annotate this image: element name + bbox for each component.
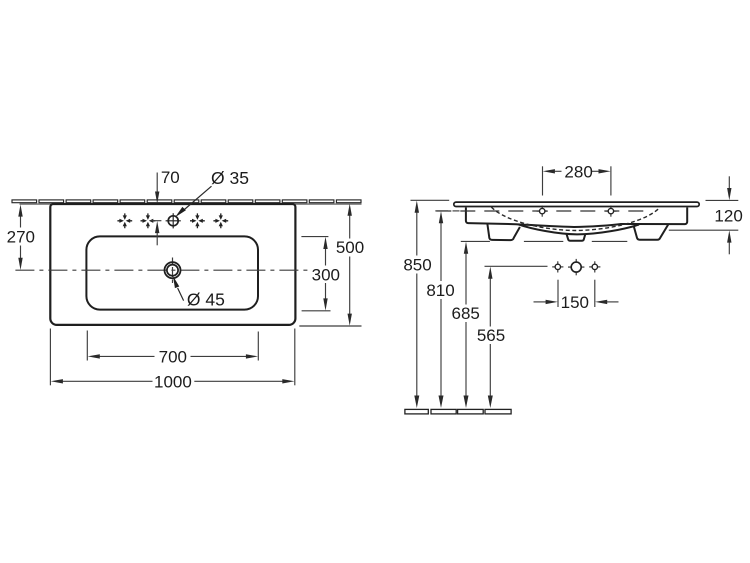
svg-text:300: 300: [312, 265, 340, 284]
trap drain circle (front): [568, 259, 584, 275]
drain outer circle: [165, 262, 181, 278]
optional tap hole cross 2: [141, 213, 156, 228]
svg-text:280: 280: [564, 162, 592, 181]
trap hole cross left (front): [552, 261, 563, 272]
tap hole Ø35 (plan): [166, 213, 181, 228]
fixing hole left (front): [537, 206, 548, 217]
horizontal centre line through drain: [15, 269, 310, 271]
dimension 280 (hole spacing): [543, 166, 611, 195]
dimension 70 (tap hole offset): [150, 173, 161, 246]
dimension 270 (left): [20, 216, 22, 259]
leader Ø35: [182, 186, 212, 212]
floor tile 4: [485, 409, 511, 414]
svg-text:70: 70: [161, 168, 180, 187]
dimension 700 (inner basin width): [87, 331, 258, 361]
svg-text:565: 565: [477, 326, 505, 345]
svg-text:500: 500: [336, 238, 364, 257]
dimension 300 (inner basin depth): [301, 237, 330, 311]
dimension 1000 (outer width): [50, 329, 294, 386]
centre drain tab (front view): [567, 234, 586, 241]
drain inner circle: [167, 265, 178, 276]
floor tile 1: [405, 409, 428, 414]
floor tile 2: [431, 409, 456, 414]
dimension 850 (top height): [411, 200, 450, 396]
optional tap hole cross 1: [117, 213, 132, 228]
bowl underside bulge (front view): [518, 224, 639, 234]
trap hole cross right (front): [589, 261, 600, 272]
dimension 500 (right of plan): [299, 215, 361, 326]
svg-text:270: 270: [7, 227, 35, 246]
right mounting tab (front view): [634, 224, 669, 239]
dimension 120 (rim height): [669, 176, 739, 254]
vanity slab (front view): [454, 202, 699, 206]
svg-text:Ø 35: Ø 35: [211, 168, 249, 188]
wall face line under tiles: [20, 203, 362, 205]
basin body outline (front view): [466, 208, 687, 228]
svg-text:810: 810: [426, 281, 454, 300]
svg-text:150: 150: [561, 293, 589, 312]
vertical centre line through drain: [172, 258, 174, 284]
svg-text:685: 685: [452, 304, 480, 323]
svg-text:850: 850: [403, 256, 431, 275]
wall tile band (plan view top): [12, 200, 361, 203]
svg-text:Ø 45: Ø 45: [187, 289, 225, 309]
washbasin outer rim (plan view): [50, 204, 295, 325]
hidden bowl contour (dashed): [491, 207, 660, 231]
optional tap hole cross 3: [190, 213, 205, 228]
inner basin rim (plan view): [86, 236, 258, 309]
optional tap hole cross 4: [213, 213, 228, 228]
left mounting tab (front view): [487, 224, 520, 240]
svg-text:700: 700: [159, 347, 187, 366]
dimension 150 (trap hole spacing): [534, 280, 619, 307]
floor tile 3: [458, 409, 484, 414]
svg-text:120: 120: [714, 206, 742, 225]
dimension 565 (trap height): [485, 266, 548, 396]
dimension 685 (underside height): [461, 241, 628, 396]
leader Ø45: [178, 288, 184, 301]
fixing hole right (front): [605, 206, 616, 217]
svg-text:1000: 1000: [154, 372, 192, 391]
dimension 810 (tap hole height): [435, 211, 459, 397]
tap hole centre line (front view, dashed): [436, 210, 652, 212]
